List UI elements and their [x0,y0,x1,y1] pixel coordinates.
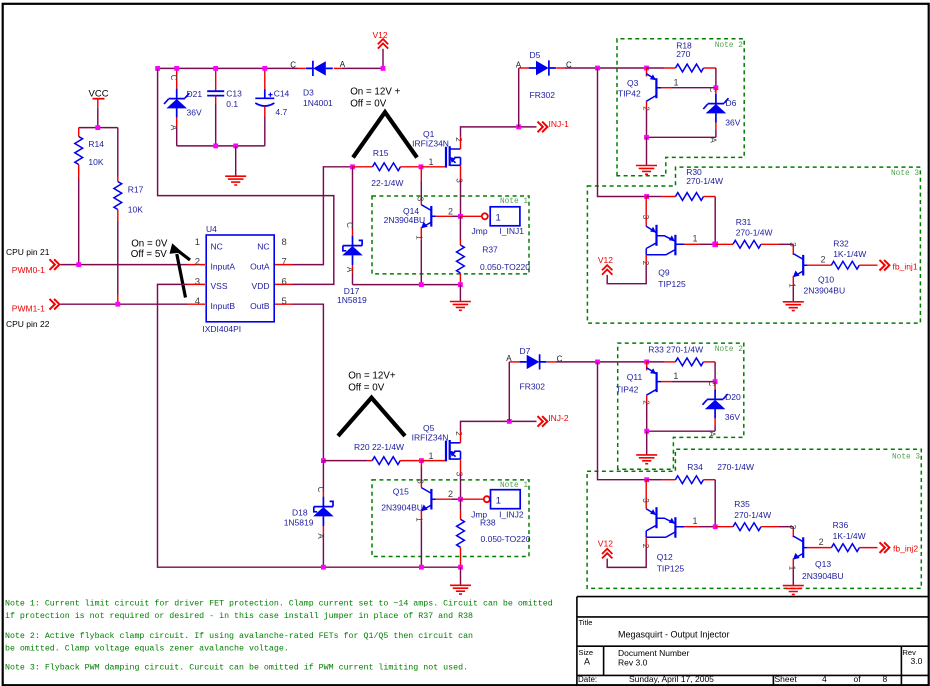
svg-text:2: 2 [454,137,463,142]
wire R14 to PWM0 net [78,179,80,265]
node main drop ch1 [595,66,600,71]
Note 2 dashed box (ch1) [617,39,744,176]
transistor Q11 TIP42 [616,362,715,431]
svg-text:C: C [345,222,354,228]
wire ch1 ground rail [353,284,461,286]
capacitor C13 0.1 [207,68,242,145]
svg-text:Note 2: Note 2 [715,42,743,50]
IC U4 IXDI404PI gate driver [202,224,274,334]
node VCC junction [95,125,100,130]
transistor Q9 TIP125 [607,197,715,290]
title block text [578,618,923,684]
port INJ-2 [509,413,569,427]
transistor Q10 2N3904BU [788,242,846,302]
node main drop ch2 [595,360,600,365]
svg-text:of: of [854,674,862,684]
zener diode D21 36V [164,68,202,145]
svg-text:TIP125: TIP125 [657,564,685,574]
ground (ch1 clamp) [636,137,657,174]
svg-text:2: 2 [819,537,824,547]
svg-text:A: A [345,267,354,273]
pin numbers U4 left [195,237,200,307]
svg-text:8: 8 [883,674,888,684]
svg-text:R31: R31 [736,217,752,227]
svg-text:3: 3 [195,276,200,287]
svg-text:A: A [169,125,178,131]
wire main drop to R30 net [598,68,647,197]
Note 1 dashed box (ch2) [372,480,529,557]
port PWM0-1 (CPU pin 21) [6,247,59,275]
node Q3 base / D6 top [714,85,719,90]
svg-text:R34: R34 [687,462,703,472]
svg-text:C14: C14 [274,89,290,99]
svg-text:1N4001: 1N4001 [303,98,333,108]
port fb_inj2 [880,542,919,553]
svg-text:OutB: OutB [250,301,270,311]
ground (ch2 clamp) [636,431,657,463]
svg-text:V12: V12 [598,539,613,549]
diode D3 1N4001 [290,60,346,108]
svg-text:fb_inj1: fb_inj1 [893,261,918,271]
Note 3 dashed box (ch1) [587,167,920,323]
svg-text:R14: R14 [88,139,104,149]
svg-text:R37: R37 [482,244,498,254]
port PWM1-1 (CPU pin 22) [6,299,59,329]
node Q3 collector junction [644,135,649,140]
power symbol VCC [89,89,109,108]
svg-text:D20: D20 [725,392,741,402]
transistor Q15 2N3904BU [381,461,460,568]
svg-text:1: 1 [415,235,424,240]
svg-text:Q9: Q9 [658,267,670,277]
svg-text:2: 2 [454,431,463,436]
port INJ-1 [519,119,569,132]
transistor Q12 TIP125 [607,480,715,574]
svg-text:U4: U4 [206,224,217,234]
node top-left bus corner [155,66,160,71]
svg-text:2: 2 [642,400,651,405]
svg-text:IXDI404PI: IXDI404PI [202,324,241,334]
svg-text:1: 1 [415,517,424,522]
node Q11 base / D20 top [713,379,718,384]
title block frame [577,597,929,685]
resistor R20 22-1/4W [323,442,421,465]
svg-text:5: 5 [282,296,287,307]
svg-text:Sheet: Sheet [775,674,798,684]
svg-text:R20 22-1/4W: R20 22-1/4W [354,442,404,452]
svg-text:6: 6 [282,276,287,287]
svg-text:Note 1: Current limit circuit: Note 1: Current limit circuit for driver… [5,599,553,609]
svg-text:Sunday, April 17, 2005: Sunday, April 17, 2005 [629,674,714,684]
wire U4 OutA up to R15 net [275,167,353,265]
svg-text:Off = 5V: Off = 5V [131,249,168,260]
svg-text:R38: R38 [480,517,496,527]
node R37 bottom rail [458,282,463,287]
pin numbers U4 right [282,237,287,307]
svg-text:4.7: 4.7 [275,107,287,117]
svg-text:Q13: Q13 [815,559,831,569]
svg-text:Q11: Q11 [627,372,643,382]
node D18 bottom rail [321,565,326,570]
node INJ-2/D7 junction [507,419,512,424]
svg-text:be omitted. Clamp voltage equa: be omitted. Clamp voltage equals zener a… [5,643,289,653]
svg-text:Title: Title [579,618,593,627]
svg-text:C: C [708,87,717,93]
wire supply loop to U4 VDD [158,68,334,284]
svg-text:I_INJ1: I_INJ1 [499,226,524,236]
svg-text:2: 2 [195,257,200,268]
svg-text:4: 4 [822,674,827,684]
resistor R34 270-1/4W [647,462,754,527]
svg-text:3: 3 [416,479,425,484]
svg-text:270-1/4W: 270-1/4W [734,510,771,520]
power symbol V12 (top) [373,30,389,69]
svg-text:Rev 3.0: Rev 3.0 [618,657,648,667]
resistor R17 [114,128,144,221]
svg-text:3: 3 [641,215,650,220]
wire D5 cathode to clamp [565,67,647,69]
wire main drop to R34 net [598,362,647,480]
svg-text:36V: 36V [187,108,202,118]
svg-text:36V: 36V [725,412,740,422]
node INJ-1/D5 junction [516,125,521,130]
wire PWM1 net to U4 InputB [61,303,206,305]
wire R20 to Q5 gate [421,460,446,462]
svg-text:R36: R36 [833,520,849,530]
resistor R33 270-1/4W [647,345,715,381]
svg-text:Off = 0V: Off = 0V [348,383,385,394]
wire Q1 source down to Q14 base [460,165,462,216]
svg-text:IRFIZ34N: IRFIZ34N [412,432,449,442]
svg-text:INJ-1: INJ-1 [549,119,570,129]
svg-text:On = 12V+: On = 12V+ [348,370,396,381]
node C13 top [213,66,218,71]
svg-text:2N3904BU: 2N3904BU [804,286,846,296]
wire Q5 drain to INJ-2 [461,421,510,442]
port fb_inj1 [880,260,918,271]
svg-text:C: C [707,381,716,387]
svg-text:1: 1 [674,77,679,87]
svg-text:Megasquirt - Output Injector: Megasquirt - Output Injector [618,629,730,639]
resistor R30 270-1/4W [647,167,723,244]
svg-text:I_INJ2: I_INJ2 [499,509,524,519]
svg-text:1: 1 [428,451,433,461]
ground (Q10 emitter) [783,302,804,311]
svg-text:2N3904BU: 2N3904BU [802,571,844,581]
node Q15 base / R38 / jumper junction [458,497,463,502]
svg-text:FR302: FR302 [530,90,556,100]
svg-text:D6: D6 [726,98,737,108]
resistor R31 270-1/4W [715,217,793,248]
svg-text:10K: 10K [88,157,103,167]
svg-text:if protection is not required: if protection is not required or desired… [5,611,473,621]
svg-text:7: 7 [282,257,287,268]
ground (supply caps) [225,146,246,185]
svg-text:IRFIZ34N: IRFIZ34N [412,138,449,148]
svg-text:PWM0-1: PWM0-1 [12,265,45,275]
svg-text:2: 2 [448,489,453,499]
resistor R36 1K-1/4W [831,520,877,551]
svg-text:Note 3: Note 3 [891,170,919,178]
node Q14 base / R37 / jumper junction [458,214,463,219]
svg-text:3: 3 [454,178,463,183]
svg-text:Off = 0V: Off = 0V [350,99,387,110]
svg-text:Date:: Date: [578,675,597,684]
svg-text:A: A [316,533,325,539]
ground (ch1 rail) [450,285,471,311]
node Q12 out / R35 junction [713,524,718,529]
wire PWM0 net to U4 InputA [61,264,206,266]
zener diode D6 36V [703,87,740,144]
ground (Q13 emitter) [783,586,804,595]
svg-text:1: 1 [788,566,797,571]
svg-text:Q15: Q15 [393,487,409,497]
power symbol V12 (ch2 note3) [598,539,613,559]
svg-text:C13: C13 [226,89,242,99]
svg-text:D3: D3 [303,88,314,98]
annotation arrow On=12V+ Off=0V (ch2) [338,370,405,436]
svg-text:270: 270 [676,49,690,59]
Note 2 dashed box (ch2) [618,343,744,469]
svg-text:D18: D18 [292,508,308,518]
wire Q5 source down to Q15 base [460,459,462,499]
power symbol V12 (ch1 note3) [598,255,613,275]
svg-text:3: 3 [641,498,650,503]
resistor R15 22-1/4W [353,148,422,188]
svg-text:22-1/4W: 22-1/4W [371,178,403,188]
svg-text:Note 1: Note 1 [500,198,528,206]
svg-text:V12: V12 [373,30,388,40]
svg-text:Q3: Q3 [627,78,639,88]
svg-text:1K-1/4W: 1K-1/4W [833,249,866,259]
svg-text:D7: D7 [520,346,531,356]
svg-text:Q12: Q12 [657,552,673,562]
svg-text:2N3904BU: 2N3904BU [384,215,426,225]
ground (ch2 rail) [450,567,471,594]
svg-text:Q10: Q10 [818,275,834,285]
svg-text:V12: V12 [598,255,613,265]
svg-text:2: 2 [448,206,453,216]
resistor R32 1K-1/4W [831,238,877,269]
node ground stub junction [233,144,238,149]
svg-text:1: 1 [673,371,678,381]
node C13 bottom [213,144,218,149]
svg-text:36V: 36V [725,117,740,127]
resistor R37 0.050-TO220 [457,216,531,284]
node R38 bottom rail [458,565,463,570]
svg-text:On = 0V: On = 0V [131,238,168,249]
svg-text:270-1/4W: 270-1/4W [717,462,754,472]
svg-text:A: A [516,60,522,69]
svg-text:Document Number: Document Number [618,648,690,658]
diode D5 FR302 [516,50,572,127]
note 2 text [5,631,473,653]
transistor Q3 TIP42 [618,68,716,137]
node OutB/R20/D18 junction [321,458,326,463]
svg-text:0.050-TO220: 0.050-TO220 [480,262,530,272]
node R14/PWM0 junction [76,262,81,267]
svg-text:CPU pin 21: CPU pin 21 [6,247,50,257]
Note 3 dashed box (ch2) [587,449,921,588]
svg-text:TIP125: TIP125 [658,279,686,289]
svg-text:Size: Size [579,648,594,657]
svg-text:2: 2 [641,261,650,266]
svg-text:8: 8 [282,237,287,248]
svg-text:CPU pin 22: CPU pin 22 [6,319,50,329]
zener diode D20 36V [703,381,741,438]
svg-text:R32: R32 [833,238,849,248]
jumper Jmp I_INJ2 [461,490,524,520]
svg-text:1: 1 [693,233,698,243]
wire capacitor bottom rail [177,145,265,147]
diode D7 FR302 [506,346,562,421]
resistor R35 270-1/4W [715,499,793,530]
svg-text:2: 2 [642,106,651,111]
node R15/gate/Q14 junction [419,164,424,169]
svg-text:fb_inj2: fb_inj2 [893,544,918,554]
resistor R38 0.050-TO220 [457,499,531,567]
svg-text:A: A [584,657,590,667]
svg-text:R33 270-1/4W: R33 270-1/4W [648,345,703,355]
svg-text:C: C [316,487,325,493]
svg-text:R17: R17 [128,185,144,195]
svg-text:FR302: FR302 [520,382,546,392]
annotation arrow On=0V Off=5V [131,238,190,297]
wire VCC to R14/R17 rail [79,108,118,128]
wire D7 cathode to clamp (ch2) [556,361,647,363]
svg-text:On = 12V +: On = 12V + [350,87,400,98]
svg-text:A: A [709,137,718,143]
svg-text:0.050-TO220: 0.050-TO220 [481,534,531,544]
wire R17 to PWM1 net [117,221,119,304]
svg-text:D21: D21 [187,89,203,99]
capacitor C14 4.7 (polarized) [255,68,289,145]
Note 1 dashed box (ch1) [372,196,529,274]
jumper Jmp I_INJ1 [460,207,524,236]
svg-text:R35: R35 [734,499,750,509]
node D21 top [174,66,179,71]
svg-text:R15: R15 [373,148,389,158]
node Q3 emitter top [644,66,649,71]
svg-text:1: 1 [496,213,501,224]
wire U4 OutB down to R20 net [275,304,323,460]
resistor R18 270 [647,41,716,88]
svg-text:0.1: 0.1 [226,99,238,109]
node R30 net left [644,194,649,199]
svg-text:NC: NC [257,242,269,252]
node Q11 collector junction [644,429,649,434]
svg-text:INJ-2: INJ-2 [548,413,569,423]
wire clamp bottom (ch2) [647,430,715,432]
svg-text:A: A [506,354,512,363]
svg-text:D5: D5 [530,50,541,60]
node C14 top [262,66,267,71]
diode D18 1N5819 [284,461,334,568]
resistor R14 [75,128,104,179]
node Q15 emitter rail [419,565,424,570]
svg-text:VDD: VDD [252,281,270,291]
transistor Q1 IRFIZ34N [412,129,463,183]
svg-text:InputA: InputA [211,261,236,271]
transistor Q13 2N3904BU [788,525,844,586]
svg-text:A: A [340,60,346,69]
node Q11 emitter top [644,360,649,365]
wire Q1 drain to INJ-1 [461,127,519,149]
node R20/gate/Q15 junction [419,458,424,463]
svg-text:2N3904BU: 2N3904BU [381,503,423,513]
svg-text:C: C [290,60,296,69]
svg-text:Note 3: Flyback PWM damping ci: Note 3: Flyback PWM damping circuit. Cur… [5,663,468,673]
svg-text:Note 3: Note 3 [892,453,920,461]
svg-text:A: A [708,431,717,437]
diode D17 1N5819 [337,167,367,305]
svg-text:3: 3 [788,242,797,247]
svg-text:OutA: OutA [250,261,270,271]
node V12 connection [381,66,386,71]
node R34 net left [644,477,649,482]
svg-text:NC: NC [211,242,223,252]
wire top supply bus [158,67,383,69]
note 1 text [5,599,553,622]
transistor Q14 2N3904BU [384,167,461,285]
transistor Q5 IRFIZ34N [412,423,464,477]
svg-text:2: 2 [641,544,650,549]
svg-text:Jmp: Jmp [472,226,488,236]
svg-text:1N5819: 1N5819 [284,518,314,528]
svg-text:VSS: VSS [211,281,228,291]
node R17/PWM1 junction [115,302,120,307]
svg-text:270-1/4W: 270-1/4W [686,176,723,186]
svg-text:1: 1 [693,516,698,526]
svg-text:1N5819: 1N5819 [337,295,367,305]
svg-text:1: 1 [496,496,501,507]
wire clamp bottom (ch1) [647,136,716,138]
svg-text:1K-1/4W: 1K-1/4W [833,531,866,541]
svg-text:C: C [169,75,178,81]
svg-text:10K: 10K [128,205,143,215]
wire R15 to Q1 gate [421,166,446,168]
svg-text:TIP42: TIP42 [616,385,639,395]
svg-text:TIP42: TIP42 [618,88,641,98]
svg-text:3: 3 [416,197,425,202]
svg-text:InputB: InputB [211,301,236,311]
svg-text:1: 1 [195,237,200,248]
svg-text:Note 2: Note 2 [715,346,743,354]
svg-text:PWM1-1: PWM1-1 [12,304,45,314]
wire U4 VSS to ground rail [158,284,461,567]
svg-text:3: 3 [454,472,463,477]
svg-text:3.0: 3.0 [911,656,923,666]
node Q9 out / R31 junction [712,242,718,248]
svg-text:1: 1 [788,283,797,288]
svg-text:270-1/4W: 270-1/4W [736,227,773,237]
node R15 net left (D17 top) [350,164,355,169]
svg-text:Note 2: Active flyback clamp c: Note 2: Active flyback clamp circuit. If… [5,631,473,641]
node Q14 emitter rail [419,282,424,287]
svg-text:4: 4 [195,296,200,307]
svg-text:2: 2 [821,255,826,265]
annotation arrow On=12V+ Off=0V (ch1) [350,87,417,158]
svg-text:1: 1 [428,157,433,167]
svg-text:3: 3 [788,525,797,530]
